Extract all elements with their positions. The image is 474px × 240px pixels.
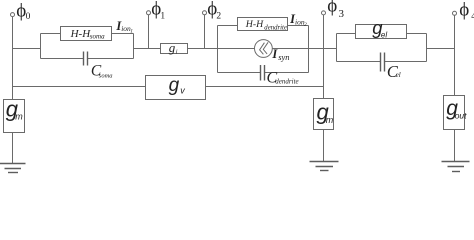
wire g_v branch left <box>13 86 146 88</box>
resistor g_el box <box>356 25 407 39</box>
resistor g_out box <box>444 96 465 130</box>
wire dendrite right junction bar <box>308 26 310 73</box>
resistor g_m left box <box>4 100 25 133</box>
current source I_syn circle <box>255 40 273 58</box>
node phi3 terminal <box>322 11 326 15</box>
svg-text:2: 2 <box>304 22 307 28</box>
wire bus phi0 to soma bar <box>13 48 41 50</box>
svg-text:m: m <box>15 112 23 122</box>
wire phi4 vertical <box>454 15 456 95</box>
node phi4 terminal <box>453 11 457 15</box>
svg-text:el: el <box>381 31 387 40</box>
wire phi2 vertical <box>204 15 206 49</box>
wire dendrite mid branch right <box>272 48 308 50</box>
capacitor C_el plates <box>380 53 382 72</box>
wire g_el right junction bar <box>426 34 428 62</box>
resistor g_m middle box <box>314 99 334 130</box>
wire dendrite top branch right <box>288 25 309 27</box>
wire soma left junction bar <box>40 34 42 59</box>
wire g_el cap branch right <box>385 61 427 63</box>
svg-text:soma: soma <box>90 32 105 40</box>
wire dendrite cap branch right <box>265 72 309 74</box>
svg-text:H-H: H-H <box>245 19 264 30</box>
svg-text:ϕ: ϕ <box>459 0 469 20</box>
svg-text:el: el <box>396 71 401 79</box>
wire soma right junction bar <box>133 34 135 59</box>
wire dendrite left junction bar <box>217 26 219 73</box>
wire g_el cap branch left <box>337 61 381 63</box>
svg-text:1: 1 <box>160 11 165 21</box>
wire g_el top branch left <box>337 33 356 35</box>
svg-text:m: m <box>326 115 334 125</box>
svg-text:dendrite: dendrite <box>264 25 287 32</box>
svg-text:v: v <box>180 85 185 95</box>
capacitor C_dendrite plates <box>260 65 262 81</box>
wire soma cap branch left <box>41 58 84 60</box>
ground left <box>0 163 26 165</box>
wire soma cap branch right <box>88 58 134 60</box>
wire dendrite top branch left <box>218 25 238 27</box>
svg-text:H-H: H-H <box>70 28 92 40</box>
svg-text:g: g <box>169 40 176 55</box>
svg-text:ϕ: ϕ <box>327 0 337 17</box>
node phi2 terminal <box>203 11 207 15</box>
wire phi3 vertical <box>323 15 325 99</box>
node phi0 terminal <box>11 13 15 17</box>
svg-text:i: i <box>176 48 178 55</box>
node phi1 terminal <box>147 11 151 15</box>
wire g_el left junction bar <box>336 34 338 62</box>
box H-H dendrite <box>238 18 288 31</box>
ground right <box>442 161 470 163</box>
wire g_m left to ground <box>12 133 14 164</box>
wire g_m middle to ground <box>323 130 325 162</box>
wire g_v branch right <box>206 86 324 88</box>
svg-text:soma: soma <box>99 73 113 80</box>
box H-H soma <box>61 27 112 41</box>
wire soma top branch left <box>41 33 61 35</box>
svg-text:3: 3 <box>339 8 345 20</box>
wire dendrite cap branch left <box>218 72 261 74</box>
ground middle <box>310 161 339 163</box>
wire phi0 vertical <box>12 17 14 100</box>
wire g_out to ground <box>454 130 456 162</box>
svg-text:syn: syn <box>278 52 289 62</box>
resistor g_v box <box>146 76 206 100</box>
wire soma top branch right <box>112 33 134 35</box>
svg-text:out: out <box>455 111 467 121</box>
wire dendrite mid branch left <box>218 48 255 50</box>
wire phi1 vertical <box>148 15 150 49</box>
wire bus g_el to phi4 <box>427 48 455 50</box>
resistor g_i box <box>161 44 188 54</box>
wire bus g_i to dendrite bar <box>188 48 218 50</box>
svg-text:dendrite: dendrite <box>275 78 298 86</box>
capacitor C_soma plates <box>83 52 85 66</box>
current source chevrons <box>260 43 265 55</box>
svg-text:g: g <box>169 75 180 96</box>
svg-text:2: 2 <box>216 11 221 21</box>
wire bus soma to g_i <box>134 48 161 50</box>
svg-text:1: 1 <box>130 29 133 35</box>
svg-text:0: 0 <box>26 12 31 22</box>
wire g_el top branch right <box>407 33 427 35</box>
wire bus dendrite to g_el bar <box>309 48 337 50</box>
